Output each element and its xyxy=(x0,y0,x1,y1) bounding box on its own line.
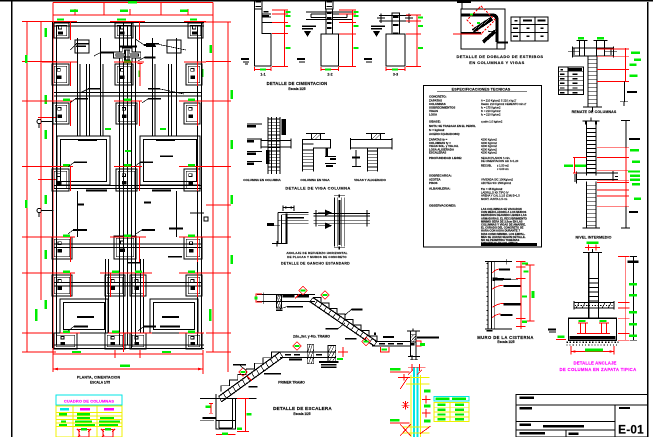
stair1 end red marks xyxy=(338,351,348,353)
nivel red dims left xyxy=(573,157,575,174)
plan right dim ticks xyxy=(201,21,231,23)
page frame right border xyxy=(647,2,649,437)
footing Z-3 row7 col3 xyxy=(130,333,146,349)
plan label bottom right leader xyxy=(144,326,156,328)
footing Z-2 row5 col3 xyxy=(184,237,202,259)
nivel top tick xyxy=(583,120,600,122)
viga-columna det1 thick bar bottom xyxy=(266,150,270,164)
viga-columna det1 thick bar top xyxy=(282,119,287,135)
plan interior wall row y282 xyxy=(54,282,202,284)
plan label row5 right xyxy=(169,228,183,230)
gancho det2 arrows left xyxy=(325,210,332,216)
title block row line 1 xyxy=(516,404,648,406)
plan label door right xyxy=(190,213,208,221)
plan label row5 mid xyxy=(142,229,155,231)
title block row line 2 xyxy=(516,421,615,423)
svg-text:DE PLACAS Y MUROS DE CONC: DE PLACAS Y MUROS DE CONCRETO xyxy=(287,255,347,259)
plan label row4 right leader xyxy=(160,156,173,158)
stair2 red mark lower xyxy=(362,337,370,345)
svg-text:MORT. JUNTA 1.5 cm: MORT. JUNTA 1.5 cm xyxy=(481,197,508,201)
plan outer wall right xyxy=(201,22,203,348)
stair1 foundation block xyxy=(216,394,236,429)
doblado diagonal hatched bar 2 xyxy=(483,32,495,43)
cistern yellow table header cyan xyxy=(434,397,469,401)
plan room label lower-right xyxy=(162,316,179,318)
remate green texts right xyxy=(631,52,640,54)
footing Z-2 row6 col1 xyxy=(52,275,72,296)
footing Z-3 row7 col4 xyxy=(186,333,202,349)
doblado diagonal hatched bar 1 xyxy=(473,19,492,32)
plan label Z-2 rowD right xyxy=(168,256,182,258)
plan top dim verticals xyxy=(52,3,54,23)
svg-text:PROFUNDIDAD LIBRE:: PROFUNDIDAD LIBRE: xyxy=(429,156,462,160)
viga-columna det2 right steps xyxy=(326,148,329,156)
stair2 bottom landing slab xyxy=(375,341,411,343)
plan red row dim bottom y333 xyxy=(60,332,80,334)
viga-columna det1 beam xyxy=(261,140,291,142)
zapata anchor green marks xyxy=(579,320,586,322)
stair2 landing black fill dashes xyxy=(283,295,295,297)
section 1-1 footing outline xyxy=(255,9,272,66)
section 3-3 footing rect xyxy=(386,34,405,66)
plan room label lower-left xyxy=(77,316,94,318)
plan red row dim y62 xyxy=(42,61,77,63)
plan bottom dim line lower xyxy=(53,368,203,370)
section 2-2 beam lines left xyxy=(311,13,326,15)
plan top dim line 2 xyxy=(53,14,213,16)
stair1 black label p3 xyxy=(289,359,302,361)
svg-text:ESCALA 1/75: ESCALA 1/75 xyxy=(90,381,110,385)
nivel ladder upper xyxy=(586,125,588,176)
stair1 ground lines xyxy=(200,398,256,400)
plan red row dim y21 xyxy=(42,21,77,23)
cistern left green bars xyxy=(390,368,400,371)
svg-text:COLUMNA EN VIGA: COLUMNA EN VIGA xyxy=(300,178,330,182)
stair1 red diamond mid xyxy=(239,368,247,376)
viga-columna det3 T beam xyxy=(351,139,393,141)
zapata left npt mark xyxy=(548,329,556,331)
zapata column top tick xyxy=(583,251,602,253)
plan label cimiento corrido right xyxy=(144,44,155,46)
svg-text:E-01: E-01 xyxy=(618,422,644,436)
stair1 top landing slab xyxy=(280,351,336,353)
svg-text:fc = 210 Kg/cm2: fc = 210 Kg/cm2 xyxy=(481,113,501,117)
plan green markers interior xyxy=(105,128,111,130)
svg-text:A = 210 Kg/cm2 S 210 x kg 2': A = 210 Kg/cm2 S 210 x kg 2' xyxy=(481,99,517,103)
plan bottom dim text xyxy=(120,365,130,368)
nivel bottom tick xyxy=(583,227,601,229)
gancho det1 bottom tick xyxy=(272,243,287,245)
plan room rect lower-left xyxy=(60,299,108,333)
section 3-3 red dim xyxy=(416,15,418,67)
muro cisterna bar label 4 xyxy=(500,314,512,316)
title block row line 3 xyxy=(516,429,615,431)
svg-text:DE COLUMNA EN ZAPATA TIPICA: DE COLUMNA EN ZAPATA TIPICA xyxy=(559,367,636,372)
cistern red tick left xyxy=(401,401,409,409)
title block text bars xyxy=(520,397,535,400)
title block outer xyxy=(516,395,648,437)
footing Z-3 row7 col1 xyxy=(54,333,77,349)
viga-columna det1 left ticks xyxy=(247,123,262,125)
plan interior verticals upper left xyxy=(77,38,79,136)
svg-text:PLANTA, CIMENTACION: PLANTA, CIMENTACION xyxy=(77,376,121,380)
plan left door glyph lower xyxy=(37,208,53,217)
svg-text:REMATE DE COLUMNAS: REMATE DE COLUMNAS xyxy=(572,110,617,114)
remate beam horizontals xyxy=(573,47,614,49)
footing Z-1 row1 col3 xyxy=(188,23,203,38)
plan room label2 mid-left xyxy=(86,190,107,192)
footing Z-1 row3 col1 xyxy=(53,103,69,124)
footing Z-1 row2 col3 xyxy=(186,64,202,85)
svg-text:PRIMER TRAMO: PRIMER TRAMO xyxy=(278,380,305,384)
stair1 black label acero xyxy=(233,364,246,366)
plan label VC right xyxy=(148,88,160,90)
footing Z-1 row4 col3 xyxy=(184,169,200,191)
svg-text:3-3: 3-3 xyxy=(393,73,398,77)
footing Z-2 row6 col3 xyxy=(130,275,146,296)
plan label Z-1 topleft xyxy=(76,43,89,45)
stair1 black label 1 xyxy=(249,386,258,388)
nivel red dims right xyxy=(625,148,627,207)
muro cisterna L=1 label xyxy=(487,330,493,332)
plan red row dim y166 xyxy=(42,166,73,168)
plan interior wall row y185 xyxy=(54,185,202,187)
stair1 landing hatch dashes xyxy=(285,354,291,356)
plan outer wall top xyxy=(54,22,204,24)
plan label bottom left leader xyxy=(74,326,88,328)
plan right dim line A xyxy=(212,22,214,352)
plan outer wall left xyxy=(52,22,54,348)
nivel middle beam xyxy=(577,172,618,174)
page frame left border xyxy=(11,0,13,437)
plan top dim text green xyxy=(128,1,137,4)
remate npt right xyxy=(623,81,625,101)
gancho det1 top dim xyxy=(283,207,294,209)
plan interior verticals lower xyxy=(105,259,107,333)
cuadro white row texts green xyxy=(77,417,90,419)
cuadro de columnas title box cyan xyxy=(56,395,122,405)
svg-text:AZOTEA S/C 150Kg/cm2: AZOTEA S/C 150Kg/cm2 xyxy=(481,181,512,185)
cistern table green cells xyxy=(438,404,446,406)
gancho det2 beam xyxy=(314,212,370,214)
section 1-1 npt mark xyxy=(241,58,249,60)
svg-text:VIGAS Y ALIGERADO: VIGAS Y ALIGERADO xyxy=(354,178,386,182)
muro cisterna red dim 2 xyxy=(529,265,531,321)
viga-columna det3 hatch square top xyxy=(372,134,381,140)
remate top stub bars xyxy=(579,41,581,49)
cistern red left polyline xyxy=(403,374,405,381)
muro cisterna wall verticals xyxy=(487,261,489,329)
doblado arc xyxy=(488,23,497,32)
svg-text:ESCALERAS: ESCALERAS xyxy=(429,151,446,155)
section 3-3 V-CH label xyxy=(371,26,385,28)
svg-text:fc = kg/cm2: fc = kg/cm2 xyxy=(429,128,445,132)
plan room label mid-left xyxy=(78,139,97,141)
stair1 black label 1o38 right xyxy=(345,338,357,340)
cistern red plus marks right xyxy=(422,395,430,403)
stair1 slab hatch rungs xyxy=(280,352,283,357)
muro cisterna right edge line xyxy=(493,261,495,329)
section 3-3 column hatched xyxy=(392,13,400,34)
plan bottom dim line upper xyxy=(53,353,203,355)
plan outer wall bottom xyxy=(54,344,204,346)
title block divider vertical xyxy=(614,405,616,437)
footing Z-1 row1 col2 xyxy=(115,23,133,38)
plan label row3 left xyxy=(75,98,88,100)
footing Z-1 row2 col2 xyxy=(115,64,133,85)
section 2-2 bottom dim xyxy=(321,69,339,71)
svg-text:COLUMNA EN COLUMNA: COLUMNA EN COLUMNA xyxy=(243,178,281,182)
svg-text:LOSA: LOSA xyxy=(429,113,438,117)
doblado bar foot xyxy=(497,41,508,43)
remate red dim right xyxy=(625,48,627,82)
stair2 landing hatch column xyxy=(277,295,282,308)
nivel middle right tick xyxy=(612,171,614,182)
plan room rect mid-left xyxy=(57,136,110,185)
cistern yellow horizontals xyxy=(406,377,430,379)
section 3-3 bottom dim xyxy=(386,69,405,71)
footing Z-2 row5 col1 xyxy=(52,237,72,259)
stair2 right red bracket xyxy=(416,341,421,346)
plan label row3 mid xyxy=(148,98,161,100)
remate top green marks xyxy=(578,37,584,39)
plan label cimiento corrido left xyxy=(101,52,114,54)
muro cisterna top tick xyxy=(503,261,511,263)
plan green vertical bar right of cross xyxy=(138,71,140,78)
stair1 sloped slab xyxy=(219,352,280,396)
stair1 ntn mark xyxy=(202,417,216,419)
plan label Z-1 topright xyxy=(146,43,159,45)
plan left dim line C xyxy=(52,21,54,352)
stair2 V-CH tiny label below column xyxy=(276,309,283,311)
zapata anchor bars red xyxy=(578,322,588,324)
stair2 slab hatch rungs xyxy=(310,298,313,302)
footing Z-1 row4 col1 xyxy=(52,169,69,191)
zapata gravel strip xyxy=(567,341,619,343)
plan right dim line B xyxy=(227,22,229,372)
svg-text:2-2: 2-2 xyxy=(327,73,332,77)
nivel right black verticals xyxy=(625,121,627,148)
svg-text:c 4.00 cm: c 4.00 cm xyxy=(497,167,509,171)
nivel green texts right xyxy=(630,149,639,151)
svg-text:Escala 1/25: Escala 1/25 xyxy=(288,87,305,91)
svg-text:2do.,3er. y 4to. TRAMO: 2do.,3er. y 4to. TRAMO xyxy=(293,335,330,339)
stair2 red bracket bottom xyxy=(380,347,389,352)
plan label row4 left leader xyxy=(74,162,87,164)
zapata right black dim xyxy=(633,257,635,341)
plan right dim green texts xyxy=(210,45,213,53)
zapata footing bottom thick xyxy=(570,336,616,339)
stair1 black label nivel xyxy=(264,373,281,375)
zapata bottom dim green text xyxy=(585,349,603,352)
nivel green text left xyxy=(564,164,573,166)
plan left dim line A xyxy=(26,21,28,352)
svg-text:DETALLE DE CIMENTACION: DETALLE DE CIMENTACION xyxy=(267,81,328,86)
svg-text:DE CIMENTACION min h=1.20: DE CIMENTACION min h=1.20 xyxy=(481,159,519,163)
cuadro header TIPO cyan xyxy=(60,408,69,411)
plan top dim line 1 xyxy=(53,2,213,4)
plan top small rooms xyxy=(75,40,89,53)
cistern cyan wall lines xyxy=(413,367,415,437)
section 2-2 V-CH label xyxy=(302,26,316,28)
muro cisterna green texts xyxy=(522,262,528,264)
gancho det2 vertical wall xyxy=(333,197,335,246)
svg-text:ESPECIFICACIONES TECNICAS: ESPECIFICACIONES TECNICAS xyxy=(452,88,511,92)
plan stair cross shape xyxy=(113,48,140,62)
svg-text:S/BASE:: S/BASE: xyxy=(429,120,441,124)
stair2 red mark mid xyxy=(321,291,329,299)
muro cisterna bottom line xyxy=(485,328,512,330)
stair2 bottom landing hatch dashes xyxy=(379,343,385,345)
footing Z-2 row6 col4 xyxy=(186,275,202,296)
plan left dim B ticks xyxy=(38,116,56,118)
plan red green markers rows xyxy=(63,99,70,101)
zapata column shaft xyxy=(588,252,590,318)
remate bottom tick xyxy=(583,106,602,108)
zapata column rungs xyxy=(589,278,599,280)
plan room rect lower-right xyxy=(150,299,198,333)
plan green bar below cross xyxy=(124,60,131,63)
section 1-1 wall column hatched xyxy=(255,0,263,9)
viga-columna det3 left tick xyxy=(355,150,357,167)
stair1 block red dim xyxy=(244,399,246,432)
stair1 landing hatch column xyxy=(307,344,314,364)
zapata green texts right xyxy=(629,283,637,285)
footing Z-2 row5 col2 xyxy=(114,236,136,259)
section 2-2 wall column hatched xyxy=(326,0,334,9)
page frame top border xyxy=(0,0,653,2)
svg-text:DETALLE DE GANCHO ESTANDARD: DETALLE DE GANCHO ESTANDARD xyxy=(281,261,350,265)
doblado thick bent bar xyxy=(461,15,497,42)
svg-text:CUADRO DE COLUMNAS: CUADRO DE COLUMNAS xyxy=(64,398,114,403)
gancho det1 corner L xyxy=(278,211,309,213)
zapata footing box xyxy=(569,318,617,340)
svg-text:fc = 175 Kg/cm2: fc = 175 Kg/cm2 xyxy=(481,106,501,110)
section 1-1 red dim xyxy=(284,10,286,67)
plan label row4 mid leader xyxy=(140,162,153,164)
svg-text:1-1: 1-1 xyxy=(260,73,265,77)
cuadro table yellow grid xyxy=(56,412,122,414)
remate table xyxy=(558,67,583,95)
svg-text:VIVIENDA S/C 100Kg/cm2: VIVIENDA S/C 100Kg/cm2 xyxy=(481,178,513,182)
cistern red top marks xyxy=(408,366,426,368)
svg-text:PISOS: PISOS xyxy=(429,181,438,185)
section 1-1 beam hatch xyxy=(263,15,270,17)
cuadro header C-2 magenta xyxy=(104,408,114,411)
remate left cross tick xyxy=(568,51,580,53)
plan room label2 mid-right xyxy=(152,190,171,192)
svg-text:q adm 1.0 kg/cm2: q adm 1.0 kg/cm2 xyxy=(481,120,503,124)
plan black interior marks mid xyxy=(77,204,84,206)
svg-text:Escala 1/25: Escala 1/25 xyxy=(293,412,310,416)
zapata column top marks green xyxy=(587,241,599,244)
zapata right red dim xyxy=(625,257,627,341)
doblado green mark xyxy=(470,14,473,16)
stair2 top landing slab xyxy=(257,293,315,295)
stair2 red diamond top xyxy=(299,286,307,294)
svg-text:DETALLE DE VIGA COLUMNA: DETALLE DE VIGA COLUMNA xyxy=(285,186,350,191)
svg-text:fc = 210 Kg/cm2: fc = 210 Kg/cm2 xyxy=(481,109,501,113)
svg-text:ACERO F(GRADO60):: ACERO F(GRADO60): xyxy=(429,132,460,136)
plan left dim line B xyxy=(40,21,42,300)
cistern yellow wall lines xyxy=(410,375,412,437)
cuadro table yellow frame xyxy=(56,406,122,437)
plan interior wall row y244 xyxy=(54,243,202,245)
section 3-3 npt mark xyxy=(364,58,372,60)
cistern yellow table xyxy=(434,403,469,422)
stair2 steps xyxy=(313,298,377,342)
plan left dim horiz ticks xyxy=(22,21,56,23)
section 1-1 bottom dim xyxy=(255,69,272,71)
gancho det1 left tick xyxy=(267,225,280,227)
stair2 right end column hatch xyxy=(411,335,416,342)
zapata npt right xyxy=(628,261,639,263)
svg-text:4200 Kg/cm2: 4200 Kg/cm2 xyxy=(481,151,497,155)
doblado table xyxy=(511,17,548,41)
plan red row dim y273 xyxy=(42,272,75,274)
footing Z-3 row7 col2 xyxy=(105,333,125,349)
svg-text:OBSERVACIONES:: OBSERVACIONES: xyxy=(429,204,456,208)
plan label VC left xyxy=(88,88,100,90)
muro cisterna bar label 3 xyxy=(503,303,520,305)
cuadro green cells xyxy=(59,413,67,415)
stair2 small black mark xyxy=(374,333,376,335)
doblado red diamond dashed xyxy=(467,6,495,34)
stair1 red diamond top xyxy=(293,342,301,350)
section 2-2 column continues xyxy=(325,9,327,34)
footing Z-1 row1 col1 xyxy=(54,23,69,38)
section 2-2 red dim xyxy=(352,10,354,67)
muro cisterna taper wedge xyxy=(492,277,518,281)
section 3-3 top beam xyxy=(379,15,411,17)
plan left door glyph upper xyxy=(37,119,53,128)
gancho det2 end ticks xyxy=(366,210,368,227)
svg-text:DETALLE DE DOBLADO DE ESTR: DETALLE DE DOBLADO DE ESTRIBOS xyxy=(457,54,544,59)
muro cisterna wall rungs xyxy=(486,263,488,265)
svg-text:RECUB.: RECUB. xyxy=(481,164,492,168)
plan room label mid-right xyxy=(156,139,175,141)
section 1-1 dim texts xyxy=(286,11,291,13)
viga-columna det2 L shape xyxy=(303,140,331,172)
viga-columna det3 column below xyxy=(367,148,369,172)
stair2 sloped slab xyxy=(313,298,377,342)
stair1 steps xyxy=(221,352,280,391)
plan interior verticals upper right xyxy=(152,38,154,136)
cuadro header C-1 magenta xyxy=(80,408,90,411)
muro cisterna red dim 1 xyxy=(520,261,522,329)
footing Z-1 row3 col3 xyxy=(184,103,200,124)
cuadro column symbols red xyxy=(77,429,115,437)
remate ladder column xyxy=(587,56,589,107)
plan interior wall row y92 xyxy=(54,92,202,94)
svg-text:NIVEL INTERMEDIO: NIVEL INTERMEDIO xyxy=(576,236,612,240)
cuadro column symbols green tops xyxy=(81,428,87,430)
zapata floor slab xyxy=(574,302,614,304)
zapata column top red xyxy=(585,247,600,249)
gancho det1 thick bar xyxy=(285,213,287,244)
svg-text:Resist. 210 Kg/cm2 CEMENTO min: Resist. 210 Kg/cm2 CEMENTO min 2' xyxy=(481,102,527,106)
stair2 V-CH label right xyxy=(417,337,439,339)
stair2 right end column xyxy=(410,331,412,356)
viga-columna det2 hatch square top xyxy=(312,134,321,140)
cistern green texts xyxy=(424,390,431,393)
section 1-1 sobrecimiento lines xyxy=(262,13,271,15)
plan label row5 left xyxy=(73,229,87,231)
stair2 black label acero3 xyxy=(383,336,394,338)
cistern top black tick xyxy=(408,356,420,358)
plan label Z-2 rowD left xyxy=(128,262,140,264)
plan red row dim y237 xyxy=(42,236,75,238)
